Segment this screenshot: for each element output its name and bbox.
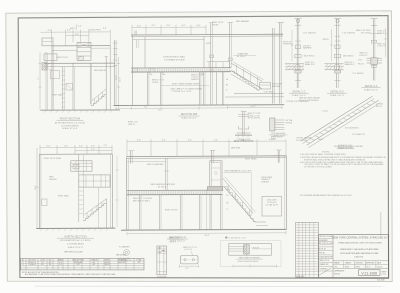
beam plan bolt group: [244, 245, 250, 254]
svg-text:L 3x3x1/4: L 3x3x1/4: [28, 264, 35, 266]
view2 stair area floor: [234, 92, 284, 94]
svg-text:C 4x5.4: C 4x5.4: [322, 111, 328, 113]
detail E rungs: [275, 119, 285, 121]
svg-text:1. ALL FIELD WELDS SHALL CONFO: 1. ALL FIELD WELDS SHALL CONFORM TO AWS …: [300, 153, 347, 156]
svg-text:4'-0": 4'-0": [137, 25, 141, 27]
view2 brick wall panel: [144, 37, 146, 69]
svg-text:EXIST PL: EXIST PL: [360, 55, 368, 57]
svg-text:6'-4": 6'-4": [144, 107, 148, 109]
beam plan enclosing frame: [221, 241, 282, 267]
view4 left wall: [38, 154, 40, 228]
view1 top vent dim cluster: [75, 25, 77, 30]
detail B nut: [334, 70, 340, 73]
svg-text:NEW HANGER: NEW HANGER: [236, 20, 250, 23]
svg-text:1 1/2" DIA ROD: 1 1/2" DIA ROD: [342, 32, 356, 35]
svg-text:ENGINEER: ENGINEER: [319, 240, 328, 242]
svg-text:WELD: WELD: [318, 139, 324, 141]
svg-text:DRILL HOLES IN FIELD: DRILL HOLES IN FIELD: [238, 261, 259, 263]
svg-text:2'-0": 2'-0": [78, 25, 82, 27]
revision grid outline: [296, 222, 319, 277]
svg-text:26'-6": 26'-6": [204, 235, 209, 237]
view1 right dim extension: [118, 57, 120, 108]
view1 left column section: [42, 63, 47, 71]
svg-text:x 0'-9" LG: x 0'-9" LG: [184, 249, 192, 251]
svg-text:2 HOLES: 2 HOLES: [251, 247, 259, 249]
svg-text:BEAM 31.8#: BEAM 31.8#: [377, 32, 387, 35]
view5 column stub mid: [211, 151, 213, 164]
detail B dim line: [331, 29, 333, 61]
scanner shadow line below paper: [35, 285, 385, 287]
view1 right ceiling line: [91, 47, 110, 49]
view5 stair steps: [225, 186, 256, 221]
view1 interior verticals: [62, 67, 64, 110]
approvals columns: [333, 261, 388, 269]
svg-text:TACK WELD: TACK WELD: [343, 55, 355, 58]
view1 right rail post: [105, 57, 107, 110]
svg-text:SHEET: SHEET: [382, 272, 387, 274]
svg-text:BEAM 42.9#: BEAM 42.9#: [345, 63, 355, 66]
view1 outer wall verticals: [45, 52, 47, 110]
view2 stair rail posts: [236, 65, 238, 74]
view5 platform height dim: [206, 191, 208, 230]
svg-text:DETAIL A-A: DETAIL A-A: [365, 85, 378, 88]
view4 stair steps: [83, 204, 106, 221]
svg-text:DWG No: DWG No: [334, 273, 340, 275]
svg-text:1 OF 1: 1 OF 1: [382, 274, 387, 276]
svg-text:NEW PL: NEW PL: [323, 39, 330, 41]
view1 lower left box: [44, 54, 57, 60]
svg-text:NEW YORK CENTRAL SYSTEM. SYRAC: NEW YORK CENTRAL SYSTEM. SYRACUSE N.Y.: [332, 237, 388, 240]
svg-text:1 1/2" DIA ROD: 1 1/2" DIA ROD: [352, 72, 365, 75]
svg-text:LINE 12: LINE 12: [128, 124, 135, 126]
view5 sign box: [262, 196, 282, 216]
view1 right wall vertical: [109, 46, 111, 110]
svg-text:BOLTS: BOLTS: [376, 106, 383, 108]
washer detail rings: [124, 250, 130, 256]
view1 roof top line: [52, 45, 111, 47]
svg-text:322: 322: [138, 262, 141, 264]
svg-text:4'-0": 4'-0": [137, 140, 141, 142]
svg-text:ALL MATERIAL TO BE STRUCTURAL: ALL MATERIAL TO BE STRUCTURAL STEEL ASTM…: [25, 273, 116, 276]
channel elevation tall rect: [157, 246, 167, 275]
svg-text:TACK WELD: TACK WELD: [303, 55, 315, 58]
view1 stair steps: [91, 95, 106, 106]
svg-text:EXISTING BRICK WALL: EXISTING BRICK WALL: [164, 56, 187, 59]
detail A turnbuckle: [295, 45, 300, 49]
svg-text:0'-9": 0'-9": [185, 268, 189, 270]
view4 base hatch: [40, 229, 108, 231]
svg-text:RUNGS: RUNGS: [286, 122, 293, 124]
svg-text:MC 8x21.4 STRINGERS: MC 8x21.4 STRINGERS: [299, 100, 319, 102]
detail A rod bottom tick: [295, 79, 301, 81]
svg-text:SCALE: 1/2"=1'-0": SCALE: 1/2"=1'-0": [68, 246, 84, 249]
svg-text:EXIST WALL: EXIST WALL: [52, 94, 63, 97]
view2 hanger stub left: [134, 30, 136, 35]
svg-text:W/ CLEVIS: W/ CLEVIS: [361, 32, 371, 34]
view5 base dim: [127, 232, 286, 235]
svg-text:12'-6": 12'-6": [116, 75, 118, 80]
detail F rungs: [306, 101, 376, 144]
svg-text:PL WASHER: PL WASHER: [119, 246, 130, 249]
svg-text:9'-2": 9'-2": [38, 76, 40, 80]
view2 machine base box: [260, 82, 271, 89]
svg-text:EL 118'-6": EL 118'-6": [237, 56, 246, 58]
detail B rivet ellipse: [334, 64, 339, 70]
svg-text:AT ELEVATORS No 1 & 2 BLDG: AT ELEVATORS No 1 & 2 BLDG: [60, 239, 90, 242]
svg-text:(LOOKING WEST): (LOOKING WEST): [61, 125, 79, 127]
svg-text:3'-9": 3'-9": [104, 145, 108, 147]
svg-text:3 TONS AT 10'-0" CTRS: 3 TONS AT 10'-0" CTRS: [172, 90, 192, 93]
view2 platform band: [131, 67, 231, 69]
svg-text:TO REMAIN IN PLACE: TO REMAIN IN PLACE: [164, 58, 185, 61]
svg-text:CONNECTION: CONNECTION: [271, 136, 285, 138]
svg-text:LOAD LIMIT: LOAD LIMIT: [267, 198, 278, 201]
svg-text:AT ELEVATORS AND MACHINE ROOMS: AT ELEVATORS AND MACHINE ROOMS: [340, 252, 379, 255]
view4 interior verticals: [78, 154, 80, 222]
view4 base lines: [36, 227, 115, 229]
svg-text:POSTS: POSTS: [152, 82, 159, 84]
svg-text:SCALE: 3"=1'-0": SCALE: 3"=1'-0": [364, 88, 378, 91]
view5 right wall verticals: [284, 156, 286, 230]
svg-text:V-21-1068: V-21-1068: [361, 271, 377, 275]
materials table outline: [21, 258, 145, 270]
view5 platform dark end segment: [207, 187, 223, 191]
svg-text:FOOT CONN: FOOT CONN: [296, 140, 307, 142]
svg-text:GUSSET PL: GUSSET PL: [283, 44, 293, 46]
view5 stair stringer: [224, 186, 255, 222]
svg-text:ANCHOR TO WALL: ANCHOR TO WALL: [133, 199, 150, 202]
view5 stair rail posts: [228, 185, 230, 191]
view5 ceiling beam double: [127, 155, 287, 158]
svg-text:AT ELEVATORS No 1 & 2 BLDG: AT ELEVATORS No 1 & 2 BLDG: [55, 121, 85, 124]
view1 floor line: [41, 109, 121, 111]
detail D base plate: [237, 132, 251, 134]
svg-text:AT: AT: [227, 201, 229, 204]
svg-text:ROOF SECTION: ROOF SECTION: [60, 117, 81, 121]
svg-text:4'-0": 4'-0": [152, 25, 156, 27]
view4 stair rail: [85, 199, 107, 215]
svg-text:x 3/8 x 0'-8": x 3/8 x 0'-8": [377, 46, 386, 48]
detail F inclined ladder stringer 1: [301, 96, 373, 141]
detail C top cross: [371, 24, 377, 26]
detail D angle clip: [238, 126, 242, 129]
svg-text:CHECKED: CHECKED: [356, 262, 364, 264]
svg-text:3/4" DIA RUNGS: 3/4" DIA RUNGS: [345, 127, 359, 130]
title block left column: [332, 235, 334, 278]
svg-text:5'-0": 5'-0": [47, 146, 51, 148]
svg-text:4'-0": 4'-0": [167, 25, 171, 27]
view2 post under platform right: [221, 72, 223, 105]
svg-text:24'-3": 24'-3": [250, 106, 255, 108]
svg-text:12'-6": 12'-6": [35, 185, 37, 190]
view5 top dimension line: [127, 139, 286, 156]
detail B rod bottom tick: [334, 79, 340, 81]
detail D top plate lines: [238, 114, 249, 116]
svg-text:GRATING: GRATING: [261, 181, 270, 184]
view1 small door rect: [51, 71, 60, 79]
svg-text:BEAM 42.9#: BEAM 42.9#: [305, 63, 315, 66]
svg-text:AT 278 1/2 +1064: AT 278 1/2 +1064: [319, 242, 333, 245]
view1 penthouse machine box: [77, 43, 91, 61]
beam plan header text: [225, 237, 227, 239]
detail E ladder channel: [270, 118, 275, 131]
view1 left dim line: [39, 53, 41, 111]
svg-text:36: 36: [49, 264, 51, 266]
svg-text:AT: AT: [226, 83, 228, 86]
svg-text:4'-4": 4'-4": [214, 139, 218, 141]
svg-text:4'-4": 4'-4": [188, 140, 192, 142]
svg-text:SCALE: 1/4"=1'-0": SCALE: 1/4"=1'-0": [181, 116, 197, 119]
svg-text:SUPERSEDES: SUPERSEDES: [334, 271, 344, 273]
view5 hanger pair: [165, 158, 167, 190]
approvals separator: [333, 260, 388, 262]
svg-text:A-7: A-7: [93, 263, 96, 266]
svg-text:C-2: C-2: [59, 264, 62, 266]
svg-text:W.E.B.: W.E.B.: [356, 266, 361, 268]
view1 roof slab double line: [44, 62, 115, 64]
svg-text:OF THE DEPT OF STRUCTURES: OF THE DEPT OF STRUCTURES: [304, 166, 332, 168]
svg-text:EXIST ROOF: EXIST ROOF: [57, 57, 69, 59]
detail D post elevation: [242, 111, 244, 135]
detail C hanger rod: [372, 19, 374, 81]
plate detail dim: [180, 265, 199, 267]
svg-text:EXIST ROOF SLAB: EXIST ROOF SLAB: [44, 157, 62, 160]
svg-text:REF DWG V-21-1066: REF DWG V-21-1066: [64, 251, 82, 253]
svg-text:1 1/2" DIA ROD: 1 1/2" DIA ROD: [303, 32, 317, 35]
svg-text:NEW HGR: NEW HGR: [231, 148, 241, 150]
svg-text:3'-2": 3'-2": [103, 28, 107, 30]
view2 stair handrail: [231, 63, 262, 81]
svg-text:7'-6" LG: 7'-6" LG: [169, 241, 176, 243]
view2 platform end plates: [133, 68, 138, 71]
svg-text:6-12-53: 6-12-53: [377, 266, 382, 268]
svg-text:0'-9": 0'-9": [41, 264, 45, 266]
view2 stair stringer: [231, 71, 262, 89]
svg-text:LADDER: LADDER: [49, 178, 57, 181]
svg-text:NEW STAIR STRINGER: NEW STAIR STRINGER: [239, 256, 260, 259]
svg-text:SCALE: 3"=1'-0": SCALE: 3"=1'-0": [330, 94, 344, 97]
view2 angle clips under platform: [150, 72, 152, 74]
detail F inclined ladder stringer 2: [307, 100, 379, 145]
view2 roof beam double line: [131, 33, 283, 36]
svg-text:EXIST CRANE RUNWAY GIRDER: EXIST CRANE RUNWAY GIRDER: [172, 83, 200, 86]
materials table row rules: [21, 260, 145, 262]
view5 under-platform posts: [139, 195, 141, 230]
revision grid rows: [296, 225, 319, 274]
detail A rivet ellipse: [295, 64, 300, 70]
svg-text:EXISTING WALL SHALL BE PATCHED: EXISTING WALL SHALL BE PATCHED TO MATCH …: [304, 158, 366, 161]
svg-text:5/16": 5/16": [358, 59, 362, 61]
detail A dim line: [291, 30, 293, 61]
svg-text:NEW STAIRWAY MC 8x21.4 STR: NEW STAIRWAY MC 8x21.4 STR: [225, 170, 253, 173]
svg-text:SECTION B-B: SECTION B-B: [181, 112, 198, 116]
svg-text:EXIST: EXIST: [206, 43, 212, 45]
svg-text:SYRACUSE DIVISION - DEPT OF ST: SYRACUSE DIVISION - DEPT OF STRUCTURES: [338, 242, 382, 245]
view1 floor hatch: [44, 111, 112, 113]
svg-text:8 - MC 8x21.4 - 7'-6": 8 - MC 8x21.4 - 7'-6": [228, 238, 246, 240]
view5 column stub right: [277, 150, 279, 163]
svg-text:NORTH SECTION: NORTH SECTION: [64, 234, 86, 238]
view5 shaft box: [210, 161, 222, 189]
svg-text:FILLET: FILLET: [358, 63, 365, 65]
svg-text:1/2" DIA BOLTS: 1/2" DIA BOLTS: [352, 133, 366, 136]
title block diagonal slash: [318, 268, 331, 276]
detail C plate crossing: [367, 57, 383, 59]
view2 hanger stub right: [229, 23, 231, 68]
view2 platform rail right: [207, 61, 230, 63]
svg-text:GRATING: GRATING: [191, 78, 199, 81]
view4 top dimension lines: [40, 145, 112, 154]
view1 left parapet box: [42, 38, 53, 46]
plate detail leader: [191, 251, 193, 256]
svg-text:NEW 2 L HANGERS: NEW 2 L HANGERS: [147, 163, 164, 166]
view2 under-platform posts: [146, 72, 148, 105]
svg-text:SCALE: 1/2"=1'-0": SCALE: 1/2"=1'-0": [62, 127, 78, 130]
view1 stair rail: [92, 89, 106, 100]
svg-text:WASHERS: WASHERS: [303, 47, 312, 50]
view5 furring line: [127, 161, 166, 163]
plate detail outline: [180, 256, 198, 264]
svg-text:12'-1": 12'-1": [158, 110, 163, 112]
svg-text:SEE DETAIL: SEE DETAIL: [116, 254, 126, 257]
svg-text:J.F.K.: J.F.K.: [334, 266, 338, 268]
view4 controller cabinet grid: [79, 175, 110, 187]
view5 stair leader line: [224, 171, 252, 173]
svg-text:5'-3": 5'-3": [64, 146, 68, 148]
view5 left wall verticals: [126, 157, 128, 230]
svg-text:4'-0": 4'-0": [182, 25, 186, 27]
view1 upper ceiling line: [52, 49, 78, 51]
svg-text:DETAIL C-C: DETAIL C-C: [292, 90, 305, 93]
svg-text:2'-8": 2'-8": [75, 34, 79, 36]
svg-text:R.M.S.: R.M.S.: [345, 266, 350, 268]
beam plan outline: [229, 244, 272, 256]
svg-text:EXIST WALL: EXIST WALL: [58, 195, 69, 198]
detail A beam section: [285, 63, 304, 65]
beam plan dim row: [233, 265, 277, 267]
view5 stair handrail: [223, 178, 254, 213]
view2 right posts: [272, 28, 274, 104]
svg-text:3'-6": 3'-6": [79, 145, 83, 147]
svg-text:3'-6": 3'-6": [91, 145, 95, 147]
view5 platform band: [127, 189, 223, 191]
view1 dimension line row: [41, 30, 111, 46]
view2 left wall verticals: [114, 40, 116, 105]
svg-text:OFFICE OF CHIEF: OFFICE OF CHIEF: [319, 236, 333, 238]
svg-text:4'-0": 4'-0": [48, 30, 52, 32]
view4 left dim line: [36, 148, 38, 228]
view5 base line: [121, 228, 287, 231]
svg-text:SLAB: SLAB: [271, 138, 277, 141]
svg-text:TRUSS: TRUSS: [212, 24, 219, 26]
svg-text:4'-0": 4'-0": [197, 25, 201, 27]
svg-text:SEE DET: SEE DET: [118, 262, 125, 264]
title block outline: [318, 235, 388, 278]
svg-text:8: 8: [23, 264, 24, 266]
bottom row separator: [333, 267, 388, 269]
svg-text:EL 109'-6": EL 109'-6": [158, 186, 167, 188]
svg-text:COMPILED: COMPILED: [319, 268, 328, 270]
svg-text:100 LBS SQ FT: 100 LBS SQ FT: [265, 205, 279, 207]
view4 small left rect: [42, 199, 47, 206]
detail A nut: [295, 70, 301, 73]
plate detail bolt holes: [184, 259, 186, 261]
view2 wall post below band: [203, 72, 205, 105]
view2 main base line: [114, 104, 285, 107]
detail B turnbuckle: [335, 45, 340, 49]
svg-text:STRINGER: STRINGER: [157, 276, 167, 278]
view2 hanger stub mid: [210, 23, 212, 105]
svg-text:FOR GENERAL ARRANGEMENT SEE DR: FOR GENERAL ARRANGEMENT SEE DRAWING No V…: [300, 194, 352, 197]
svg-text:4'-4": 4'-4": [162, 140, 166, 142]
svg-text:DETAIL D-D: DETAIL D-D: [330, 90, 343, 93]
svg-text:& BLDGS: & BLDGS: [354, 257, 363, 259]
view2 top dimension line: [132, 25, 206, 35]
drawing number box: [359, 270, 381, 276]
svg-text:GRA-409: GRA-409: [296, 275, 305, 278]
svg-text:EXIST BEAM: EXIST BEAM: [245, 158, 257, 161]
svg-text:W/ 3/4" BOLTS: W/ 3/4" BOLTS: [248, 118, 261, 120]
view5 stair bottom treads: [255, 221, 266, 223]
view2 base dimension: [228, 106, 283, 108]
view4 stair top landing post: [105, 199, 107, 229]
svg-text:H.L.V.: H.L.V.: [366, 266, 371, 268]
view1 left wall verticals: [51, 46, 53, 110]
svg-text:EMERGENCY LADDERS & PLATFORMS: EMERGENCY LADDERS & PLATFORMS: [340, 248, 379, 251]
svg-text:EXIST FLOOR: EXIST FLOOR: [165, 210, 178, 212]
svg-text:V-21-1068: V-21-1068: [377, 280, 384, 282]
materials table column rules: [26, 258, 134, 270]
view1 small equipment box: [66, 84, 73, 91]
view2 stair steps: [232, 71, 260, 90]
svg-text:10'-0": 10'-0": [120, 77, 122, 82]
detail B beam section: [325, 63, 344, 65]
detail A hanger rod: [296, 19, 298, 88]
view4 top line: [39, 153, 112, 155]
detail A clevis eye: [296, 19, 299, 22]
svg-text:7'-3": 7'-3": [91, 149, 95, 151]
svg-text:FILE No: FILE No: [319, 252, 325, 254]
svg-text:(LOOKING EAST): (LOOKING EAST): [67, 243, 84, 246]
view2 crane rail leader: [233, 54, 256, 56]
view4 machine box: [71, 161, 92, 171]
detail B hanger rod: [336, 19, 338, 88]
vertical divider above title block: [380, 212, 382, 236]
svg-text:EXIST PENT: EXIST PENT: [89, 29, 101, 31]
svg-text:2'-6": 2'-6": [67, 30, 71, 32]
view5 column stub left: [130, 151, 132, 164]
svg-text:UNLESS NOTED: UNLESS NOTED: [338, 147, 353, 149]
beam plan flange lines: [229, 246, 247, 248]
view4 right wall: [110, 154, 112, 228]
svg-text:NEW LADDER: NEW LADDER: [94, 69, 107, 72]
revision grid columns: [299, 222, 314, 277]
